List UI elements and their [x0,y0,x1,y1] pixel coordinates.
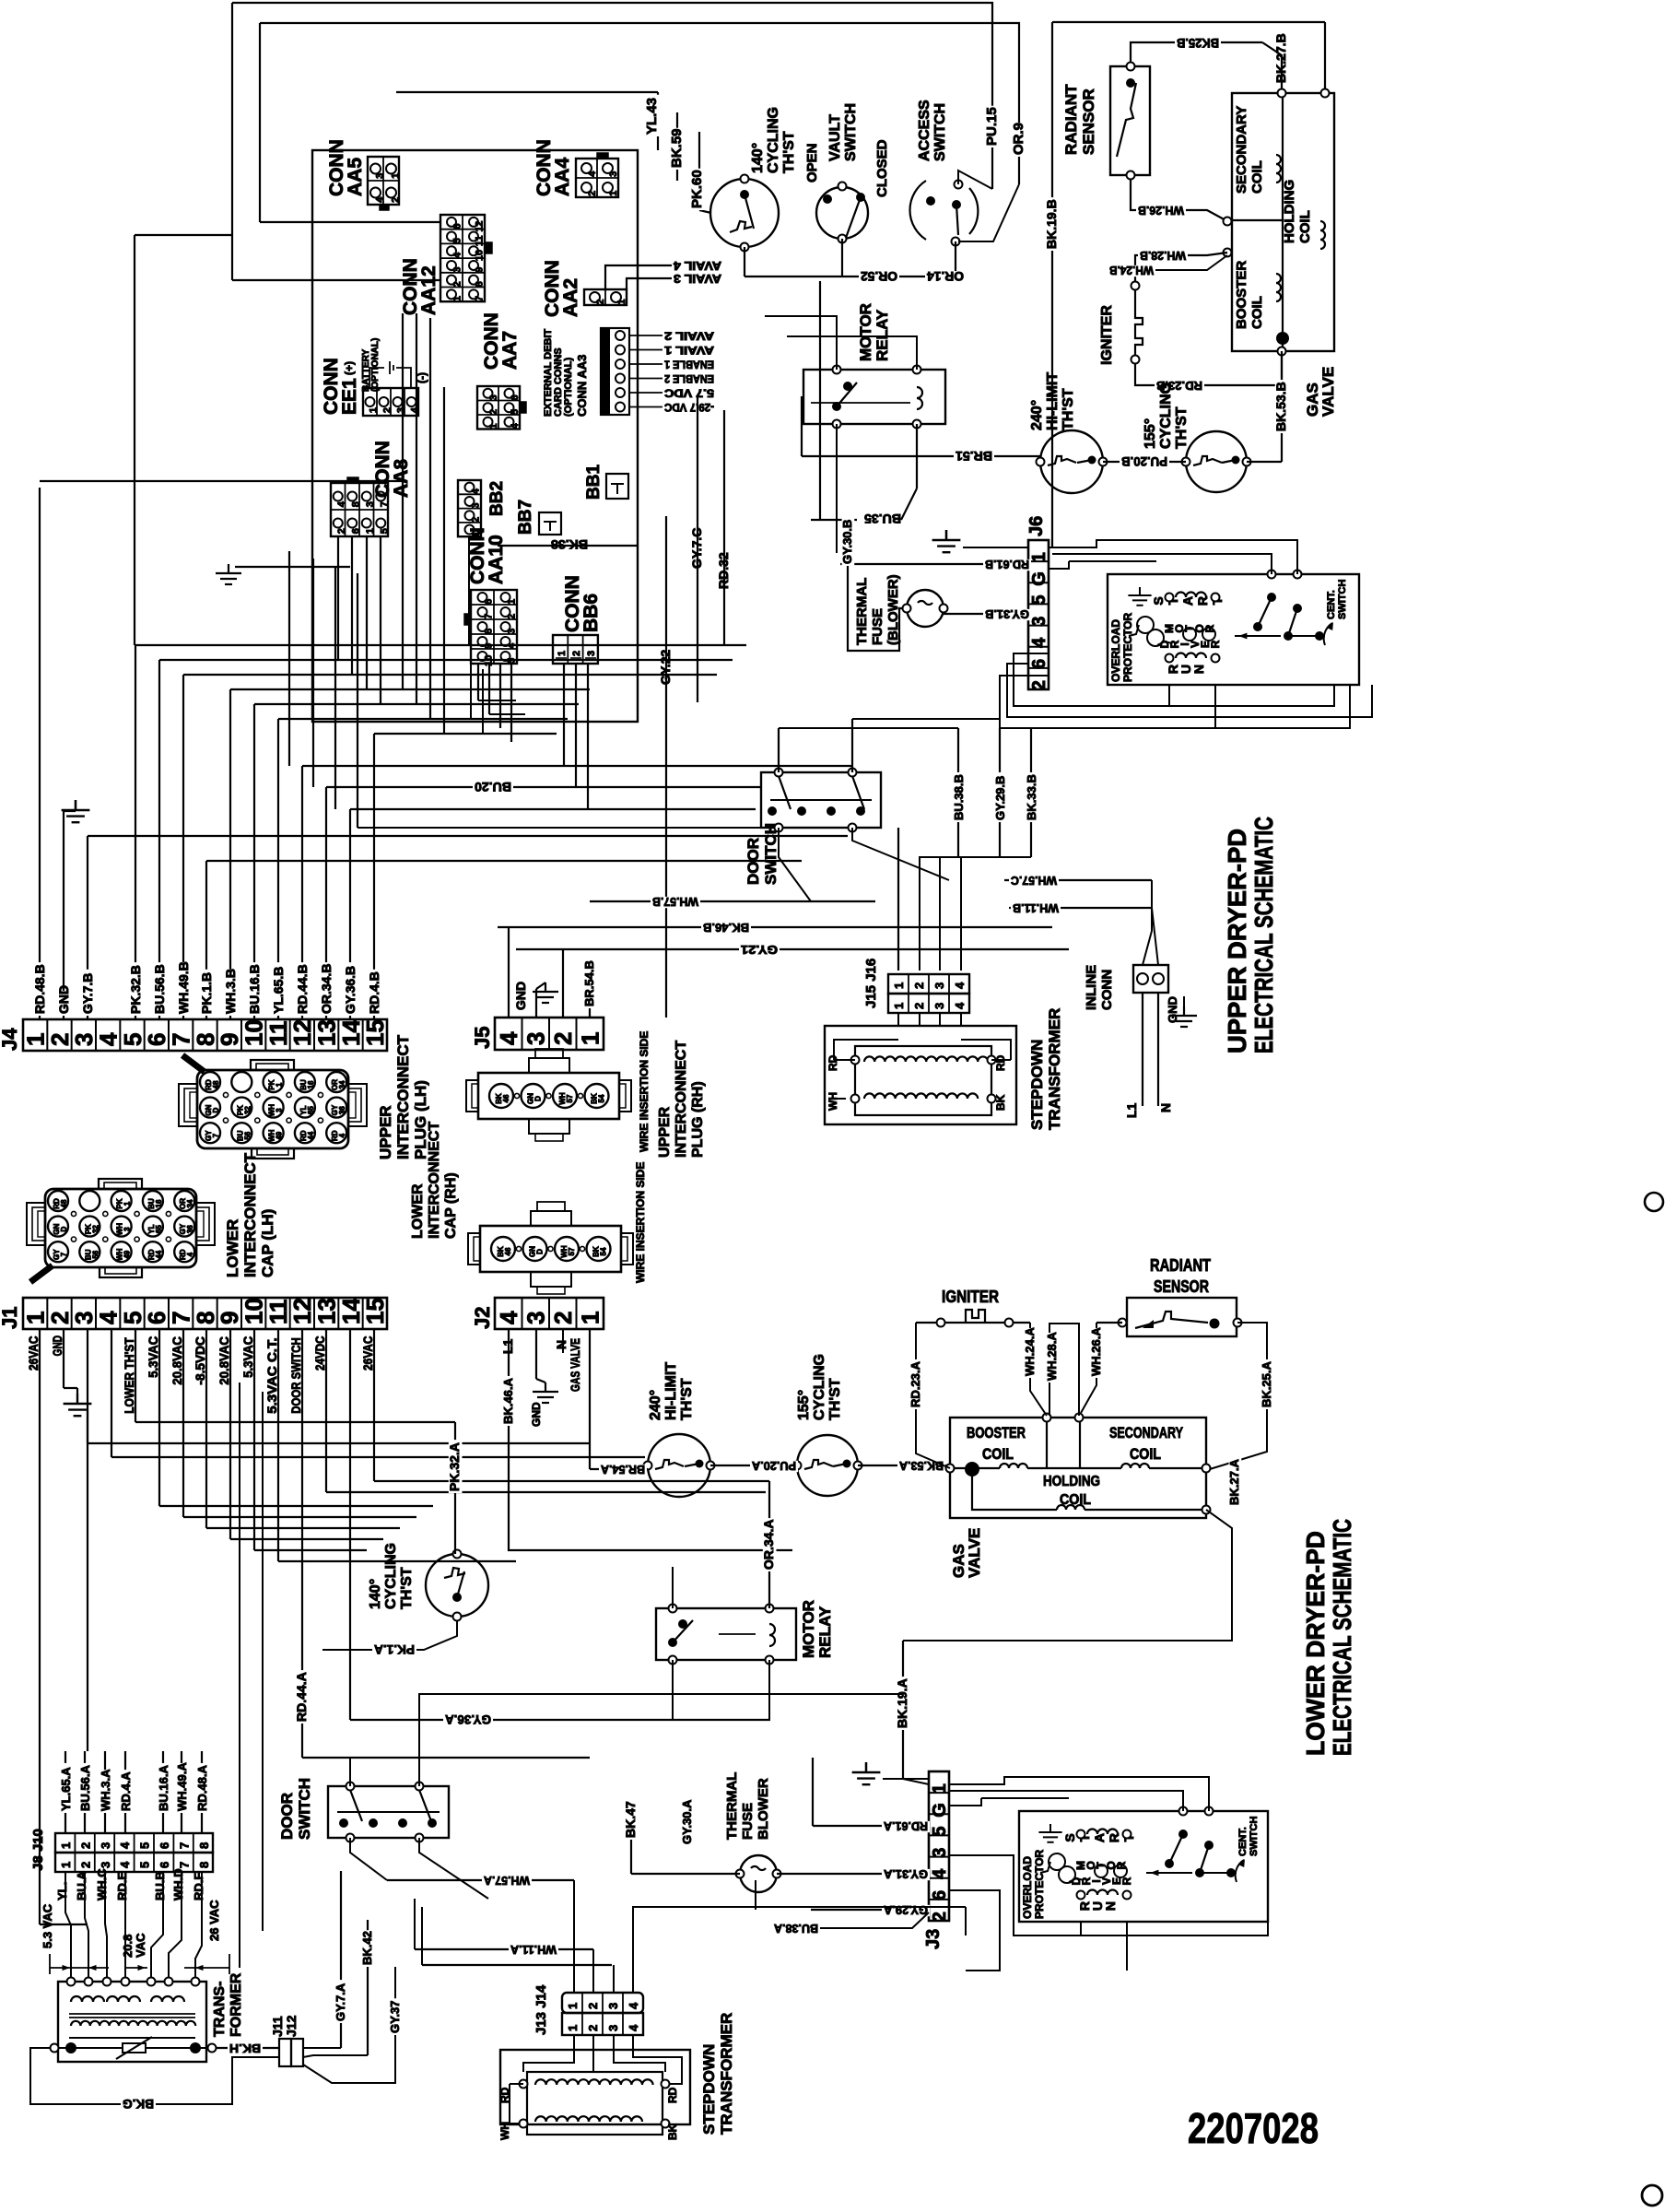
svg-text:PU.20.B: PU.20.B [1121,454,1167,469]
svg-text:MOTOR: MOTOR [857,303,874,361]
svg-text:46: 46 [502,1094,510,1102]
svg-text:3: 3 [507,629,518,634]
svg-text:FUSE: FUSE [870,608,885,645]
svg-text:3: 3 [522,1032,550,1045]
svg-text:AA5: AA5 [345,158,366,196]
svg-text:4: 4 [953,982,967,989]
svg-text:-8.5VDC: -8.5VDC [193,1336,207,1385]
svg-text:1: 1 [123,1201,132,1206]
svg-text:BU.38.B: BU.38.B [952,774,966,820]
svg-text:36: 36 [338,1106,346,1114]
svg-text:OR.9: OR.9 [1011,123,1026,155]
svg-text:2: 2 [507,614,518,619]
svg-text:GND: GND [530,1402,543,1427]
svg-text:7: 7 [380,501,391,507]
svg-text:2: 2 [452,281,463,287]
svg-text:5: 5 [452,238,463,243]
svg-text:BU.16.B: BU.16.B [247,964,262,1014]
svg-text:1: 1 [566,2003,580,2009]
svg-text:6: 6 [158,1862,171,1868]
svg-text:RD.48.B: RD.48.B [32,964,47,1014]
svg-text:65: 65 [155,1225,163,1233]
svg-text:SENSOR: SENSOR [1154,1277,1209,1296]
svg-text:LOWER DRYER-PD: LOWER DRYER-PD [1301,1531,1330,1756]
svg-text:2: 2 [549,1312,577,1324]
svg-text:N: N [554,1340,569,1349]
svg-text:OR.34.A: OR.34.A [761,1520,776,1570]
svg-text:COIL: COIL [1249,296,1265,329]
svg-text:THERMAL: THERMAL [724,1772,740,1840]
svg-text:COIL: COIL [982,1445,1014,1463]
svg-text:GY.36.B: GY.36.B [343,966,358,1014]
svg-text:4: 4 [587,171,598,177]
svg-text:UPPER DRYER-PD: UPPER DRYER-PD [1223,829,1251,1053]
svg-text:20.8VAC: 20.8VAC [170,1336,184,1385]
svg-text:56: 56 [91,1250,100,1258]
svg-text:CENT.: CENT. [1237,1827,1249,1856]
svg-text:5: 5 [138,1862,152,1868]
svg-text:BB1: BB1 [584,465,604,500]
svg-text:WH.11.B: WH.11.B [1013,901,1059,915]
svg-text:2: 2 [382,407,393,413]
svg-text:8: 8 [197,1862,211,1868]
svg-text:J6: J6 [1026,516,1047,536]
svg-text:COIL: COIL [1249,160,1265,194]
svg-text:BK.53.A: BK.53.A [898,1459,944,1473]
svg-text:UPPER: UPPER [657,1106,673,1158]
svg-text:BK.G: BK.G [123,2097,154,2112]
svg-text:RD: RD [666,2087,679,2103]
svg-text:INLINE: INLINE [1084,965,1099,1010]
svg-text:BU.56.B: BU.56.B [152,964,167,1014]
svg-text:J1: J1 [0,1307,21,1329]
svg-text:G: G [1029,571,1049,586]
svg-text:6: 6 [351,528,362,534]
svg-text:2: 2 [78,1842,92,1849]
svg-text:SWITCH: SWITCH [1249,1817,1260,1856]
svg-text:8: 8 [351,501,362,507]
svg-text:16: 16 [307,1080,315,1088]
svg-text:OVERLOAD: OVERLOAD [1109,619,1122,682]
svg-text:DOOR SWITCH: DOOR SWITCH [288,1337,303,1414]
svg-text:WH.3.B: WH.3.B [223,969,238,1014]
svg-text:TRANSFORMER: TRANSFORMER [1046,1008,1063,1130]
svg-text:AA7: AA7 [499,331,521,370]
svg-text:BK.19.B: BK.19.B [1044,199,1059,249]
svg-text:7: 7 [212,1133,220,1137]
svg-text:CONN: CONN [1099,970,1115,1010]
svg-text:1: 1 [566,2025,580,2031]
svg-text:4: 4 [495,1031,522,1045]
svg-text:32: 32 [91,1225,100,1233]
svg-text:BLOWER: BLOWER [756,1778,771,1840]
svg-text:J15 J16: J15 J16 [863,959,879,1008]
svg-text:SENSOR: SENSOR [1080,88,1097,155]
svg-text:4: 4 [930,1868,950,1879]
svg-text:7: 7 [475,296,486,301]
svg-text:TRANS-: TRANS- [212,1982,228,2037]
svg-text:BK.42: BK.42 [360,1931,374,1965]
svg-text:DOOR: DOOR [278,1793,296,1840]
svg-text:BU.A: BU.A [75,1871,88,1900]
svg-text:TH'ST: TH'ST [1061,388,1076,430]
svg-text:5: 5 [138,1842,152,1849]
svg-text:4: 4 [118,1841,132,1849]
svg-text:(OPTIONAL): (OPTIONAL) [370,338,381,392]
svg-text:GND: GND [513,982,528,1010]
svg-text:2: 2 [390,197,401,203]
svg-text:RADIANT: RADIANT [1150,1256,1211,1275]
svg-text:TH'ST: TH'ST [781,131,797,173]
svg-text:2: 2 [586,2025,600,2031]
svg-text:BK.33.B: BK.33.B [1025,774,1038,820]
svg-text:J3: J3 [923,1929,944,1949]
svg-text:1: 1 [488,423,499,429]
svg-text:1: 1 [577,1312,604,1324]
svg-text:7: 7 [177,1842,191,1849]
svg-text:5.7 VDC: 5.7 VDC [664,387,714,400]
svg-text:BR.51: BR.51 [956,449,992,464]
svg-text:44: 44 [307,1131,315,1139]
svg-text:5: 5 [930,1826,950,1836]
svg-text:4: 4 [118,1861,132,1868]
svg-text:BK.25.A: BK.25.A [1260,1361,1273,1407]
svg-text:4: 4 [338,1133,346,1137]
svg-text:WH.11.A: WH.11.A [510,1943,557,1957]
svg-text:BB7: BB7 [516,500,535,535]
svg-text:3: 3 [123,1227,132,1231]
svg-text:J2: J2 [471,1307,494,1329]
svg-text:R: R [1195,596,1210,606]
svg-text:FUSE: FUSE [740,1803,756,1840]
svg-text:AA10: AA10 [486,535,507,584]
svg-text:GND: GND [56,985,71,1014]
svg-text:34: 34 [338,1080,346,1088]
svg-text:GY.31.B: GY.31.B [985,607,1029,621]
svg-text:BK.19.A: BK.19.A [895,1678,909,1728]
svg-text:AA4: AA4 [552,158,573,196]
svg-text:ENABLE 1: ENABLE 1 [664,359,714,371]
svg-text:BK.47: BK.47 [623,1801,638,1838]
svg-text:3: 3 [488,394,499,400]
svg-text:1: 1 [892,982,906,989]
svg-text:SWITCH: SWITCH [843,103,859,161]
svg-text:1: 1 [365,528,376,534]
svg-text:PK.1.A: PK.1.A [374,1642,415,1657]
svg-text:3: 3 [932,982,946,989]
svg-text:D: D [60,1226,68,1231]
svg-text:4: 4 [953,1002,967,1009]
svg-text:WIRE INSERTION SIDE: WIRE INSERTION SIDE [634,1162,647,1283]
svg-text:RD.48.A: RD.48.A [195,1765,209,1811]
svg-text:3: 3 [276,1108,284,1112]
svg-text:12: 12 [475,220,486,231]
svg-text:WH.D: WH.D [171,1868,185,1900]
svg-text:65: 65 [307,1106,315,1114]
svg-text:49: 49 [276,1131,284,1139]
svg-text:OVERLOAD: OVERLOAD [1021,1856,1034,1919]
svg-text:BK.46.A: BK.46.A [501,1378,515,1424]
svg-text:2207028: 2207028 [1188,2104,1319,2152]
svg-text:WH.49.B: WH.49.B [176,961,191,1014]
svg-text:2: 2 [488,409,499,415]
svg-text:AA2: AA2 [560,278,581,317]
svg-text:AA12: AA12 [418,265,440,315]
svg-text:RD.44.B: RD.44.B [295,964,310,1014]
svg-text:57: 57 [568,1247,576,1255]
svg-text:WH.C: WH.C [95,1868,109,1900]
svg-text:WH: WH [827,1092,839,1111]
svg-text:BK.46.B: BK.46.B [703,921,749,935]
svg-text:OPEN: OPEN [804,143,820,182]
svg-text:PK.60: PK.60 [689,170,705,208]
svg-text:3: 3 [606,2025,620,2031]
svg-text:INTERCONNECT: INTERCONNECT [427,1122,442,1239]
svg-text:RD.F: RD.F [192,1873,205,1900]
svg-text:PROTECTOR: PROTECTOR [1033,1850,1046,1919]
svg-text:CYCLING: CYCLING [383,1543,399,1609]
svg-text:1: 1 [608,191,619,196]
svg-text:FORMER: FORMER [229,1972,244,2037]
svg-text:YL.43: YL.43 [644,98,660,135]
svg-text:GND: GND [1166,996,1179,1023]
svg-text:7: 7 [484,614,495,619]
svg-text:2: 2 [912,1003,926,1009]
svg-text:AVAIL 2: AVAIL 2 [664,330,714,343]
svg-text:RD.4.B: RD.4.B [367,971,381,1014]
svg-text:CENT.: CENT. [1326,590,1337,619]
svg-text:44: 44 [155,1250,163,1258]
svg-text:IGNITER: IGNITER [942,1288,999,1306]
svg-text:BU.B: BU.B [153,1871,167,1900]
svg-text:N: N [1158,1103,1173,1112]
svg-text:WH.57.B: WH.57.B [652,895,698,909]
svg-text:1: 1 [1029,552,1049,562]
svg-text:BR.54.A: BR.54.A [600,1463,645,1477]
svg-text:J4: J4 [0,1028,21,1051]
svg-text:8: 8 [475,281,486,287]
svg-text:15: 15 [361,1019,389,1046]
svg-text:GY.29.A: GY.29.A [883,1903,928,1917]
svg-text:1: 1 [507,599,518,605]
svg-text:4: 4 [336,500,347,507]
svg-text:HI-LIMIT: HI-LIMIT [663,1362,679,1420]
svg-text:2: 2 [471,517,482,523]
svg-text:48: 48 [60,1199,68,1207]
svg-text:OR.52: OR.52 [861,269,897,284]
svg-text:N: N [1191,665,1206,674]
svg-text:GY.37: GY.37 [388,2001,402,2033]
svg-text:S: S [1151,596,1166,605]
svg-text:48: 48 [212,1080,220,1088]
svg-text:1: 1 [577,1032,604,1045]
svg-text:A: A [1092,1833,1107,1842]
svg-text:36: 36 [186,1225,194,1233]
svg-text:(+): (+) [343,361,356,375]
svg-text:140°: 140° [750,143,766,173]
svg-text:2: 2 [336,528,347,534]
svg-text:ELECTRICAL SCHEMATIC: ELECTRICAL SCHEMATIC [1328,1519,1356,1756]
svg-text:WH.57.C: WH.57.C [1010,874,1057,888]
svg-text:240°: 240° [648,1390,663,1420]
svg-text:EE1: EE1 [339,378,360,415]
svg-text:L1: L1 [1124,1102,1139,1118]
svg-text:ELECTRICAL SCHEMATIC: ELECTRICAL SCHEMATIC [1249,817,1278,1053]
svg-text:54: 54 [598,1094,606,1102]
svg-text:4: 4 [374,196,385,203]
svg-text:1: 1 [930,1783,950,1794]
svg-text:20.8: 20.8 [121,1935,135,1958]
svg-text:PK.32.B: PK.32.B [128,965,143,1014]
svg-text:GY.7.B: GY.7.B [80,973,95,1014]
svg-text:CONN AA3: CONN AA3 [575,355,589,417]
svg-text:BOOSTER: BOOSTER [967,1424,1026,1441]
svg-text:24VDC: 24VDC [312,1336,327,1371]
svg-text:5: 5 [1029,594,1049,605]
svg-text:1: 1 [616,300,627,305]
svg-text:1: 1 [276,1082,284,1087]
svg-text:LOWER: LOWER [410,1183,426,1239]
svg-text:RD: RD [994,1054,1007,1071]
svg-text:BU.20: BU.20 [475,780,511,794]
svg-text:BU.38.A: BU.38.A [773,1922,818,1935]
svg-text:4: 4 [452,252,463,258]
svg-text:20.8VAC: 20.8VAC [217,1336,231,1385]
svg-text:SECONDARY: SECONDARY [1234,106,1249,194]
svg-text:9: 9 [475,267,486,273]
svg-text:1: 1 [59,1862,73,1868]
svg-text:S: S [1062,1833,1077,1841]
svg-text:26VAC: 26VAC [360,1336,375,1371]
svg-text:5.3 VAC: 5.3 VAC [41,1903,54,1948]
svg-text:RD.4.A: RD.4.A [119,1771,133,1811]
svg-text:COIL: COIL [1130,1445,1161,1463]
svg-text:D: D [534,1096,543,1101]
svg-text:WIRE INSERTION SIDE: WIRE INSERTION SIDE [638,1031,651,1152]
svg-text:140°: 140° [368,1579,383,1609]
svg-text:GY.7.A: GY.7.A [334,1983,347,2021]
svg-text:BK.53.B: BK.53.B [1273,382,1288,431]
svg-text:AVAIL 3: AVAIL 3 [674,272,721,286]
svg-text:7: 7 [60,1252,68,1256]
svg-text:WH.3.A: WH.3.A [99,1769,112,1811]
svg-text:5.3VAC: 5.3VAC [240,1336,255,1378]
svg-text:BOOSTER: BOOSTER [1234,261,1249,329]
svg-text:BB2: BB2 [487,481,507,516]
svg-text:15: 15 [361,1298,389,1324]
svg-text:3: 3 [932,1003,946,1009]
svg-text:HOLDING: HOLDING [1043,1474,1100,1489]
svg-text:RD.44.A: RD.44.A [294,1672,309,1722]
svg-text:2: 2 [1029,680,1049,690]
svg-text:PLUG (RH): PLUG (RH) [690,1081,706,1158]
svg-text:WH.26.B: WH.26.B [1138,204,1184,218]
svg-text:GY.21: GY.21 [741,943,778,957]
svg-text:11: 11 [475,235,486,246]
svg-text:VALVE: VALVE [966,1528,983,1578]
svg-text:ACCESS: ACCESS [917,100,932,161]
svg-text:VAC: VAC [134,1933,147,1958]
svg-text:J13 J14: J13 J14 [534,1984,549,2035]
svg-text:TH'ST: TH'ST [399,1567,415,1609]
svg-text:AVAIL 4: AVAIL 4 [673,259,721,273]
svg-text:2: 2 [586,2003,600,2009]
svg-text:4: 4 [186,1252,194,1256]
svg-text:ENABLE 2: ENABLE 2 [664,372,714,385]
svg-text:BU.16.A: BU.16.A [157,1765,170,1811]
svg-text:3: 3 [374,173,385,179]
svg-text:4: 4 [1029,637,1049,648]
svg-text:5.3VAC: 5.3VAC [146,1336,160,1378]
svg-text:5.3VAC C.T.: 5.3VAC C.T. [264,1337,279,1414]
svg-text:6: 6 [452,223,463,229]
svg-text:SWITCH: SWITCH [296,1778,313,1840]
svg-text:1: 1 [452,296,463,301]
svg-text:OR.14: OR.14 [927,269,964,284]
svg-text:5: 5 [510,409,521,415]
svg-text:155°: 155° [796,1390,812,1420]
svg-text:3: 3 [1029,617,1049,627]
svg-text:RD.23.A: RD.23.A [909,1361,922,1407]
svg-text:2: 2 [78,1862,92,1868]
svg-text:CYCLING: CYCLING [812,1354,827,1420]
svg-text:16: 16 [155,1199,163,1207]
svg-text:3: 3 [606,2003,620,2009]
svg-text:GY.30.A: GY.30.A [680,1799,694,1844]
svg-text:CLOSED: CLOSED [874,139,890,197]
svg-text:49: 49 [123,1250,132,1258]
svg-text:3: 3 [522,1312,550,1324]
svg-text:RELAY: RELAY [816,1606,834,1658]
svg-text:J8 J10: J8 J10 [30,1829,46,1871]
svg-text:CYCLING: CYCLING [766,107,781,173]
svg-text:GAS VALVE: GAS VALVE [568,1338,582,1392]
svg-text:VAULT: VAULT [827,114,843,161]
svg-text:COIL: COIL [1297,210,1313,243]
svg-text:VALVE: VALVE [1319,367,1337,417]
svg-text:WH.57.A: WH.57.A [483,1874,530,1888]
svg-text:3: 3 [396,407,407,413]
svg-text:PROTECTOR: PROTECTOR [1121,613,1134,682]
svg-text:10: 10 [475,250,486,261]
svg-text:1: 1 [390,173,401,179]
svg-text:HOLDING: HOLDING [1282,180,1297,243]
svg-text:BK25.B: BK25.B [1177,36,1219,51]
svg-text:8: 8 [484,629,495,634]
svg-text:WH.49.A: WH.49.A [175,1762,189,1811]
svg-text:CYCLING: CYCLING [1158,382,1174,449]
svg-text:2: 2 [595,300,606,305]
svg-text:WH.24.A: WH.24.A [1023,1327,1037,1376]
svg-text:1: 1 [369,407,380,413]
svg-text:GY.30.B: GY.30.B [840,520,854,564]
svg-text:4: 4 [510,422,521,429]
svg-text:PU.15: PU.15 [984,107,1000,146]
svg-text:STEPDOWN: STEPDOWN [700,2044,718,2135]
svg-text:3: 3 [365,501,376,507]
svg-text:34: 34 [186,1199,194,1207]
svg-text:BU.56.A: BU.56.A [78,1765,92,1811]
svg-text:BK: BK [994,1094,1007,1111]
svg-text:WH.28.B: WH.28.B [1140,249,1186,263]
svg-text:RELAY: RELAY [874,309,891,361]
svg-text:BK: BK [666,2124,679,2140]
svg-text:4: 4 [627,2024,640,2031]
svg-text:3: 3 [99,1862,112,1868]
svg-text:A: A [1180,596,1195,606]
svg-text:GND: GND [50,1335,64,1357]
svg-text:GY.29.B: GY.29.B [993,776,1007,820]
